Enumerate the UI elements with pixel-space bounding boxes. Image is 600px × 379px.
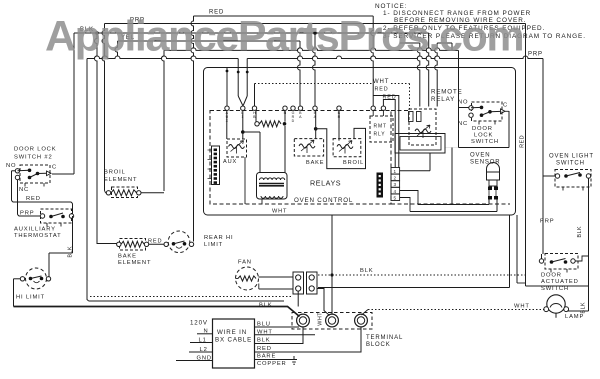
wire join right drops [517, 282, 526, 284]
hi limit blade [31, 276, 42, 279]
svg-text:OVEN CONTROL: OVEN CONTROL [294, 197, 353, 204]
wire NC down [17, 180, 19, 215]
wire WHT dotted right part [391, 83, 410, 85]
svg-text:ELEMENT: ELEMENT [118, 260, 151, 266]
wire fan circuit lower [89, 300, 284, 302]
svg-text:RMT: RMT [374, 124, 387, 130]
svg-text:OVEN LIGHT: OVEN LIGHT [549, 154, 594, 160]
transformer T1 [257, 173, 288, 200]
wire YEL bus [118, 40, 301, 42]
door actuated switch blade [552, 259, 566, 263]
wire BR terminal to broil relay [338, 111, 340, 141]
wire drop to bake element [95, 33, 98, 241]
wire right side drop x=525 [525, 24, 527, 287]
svg-text:3: 3 [394, 182, 397, 187]
junction BLK dotted [330, 273, 333, 276]
svg-text:REAR HI: REAR HI [204, 235, 233, 241]
wire RED bridge outer [373, 96, 399, 168]
svg-text:LIMIT: LIMIT [204, 242, 223, 248]
wire RED drop to board terminal [371, 16, 373, 106]
wire up to C [508, 111, 510, 148]
svg-text:WHT: WHT [318, 312, 324, 326]
wire bare copper [255, 359, 292, 361]
wire PRP drop to oven light switch [542, 59, 544, 177]
terminal DLS2 row2 [15, 175, 19, 179]
relay module solid outline [316, 128, 366, 168]
svg-text:ELEMENT: ELEMENT [104, 177, 137, 183]
junction bake relay feed [314, 127, 318, 131]
switch door lock dashed box [472, 102, 503, 121]
junction BLK/bake [95, 31, 99, 35]
wire drop to door lock switch NO and box edge [458, 50, 460, 147]
svg-text:WHT: WHT [272, 209, 287, 215]
wire aux relay to board edge [244, 157, 246, 204]
relay remote dashed box [409, 109, 436, 145]
wire plug2 to terminal block [317, 289, 330, 316]
svg-text:2: 2 [394, 176, 397, 181]
svg-text:BARE: BARE [257, 354, 276, 360]
wire segment upper right a [400, 42, 420, 44]
wire under door lock switch [459, 147, 510, 149]
ground symbol [291, 356, 297, 364]
terminal bake right [144, 242, 148, 246]
wire to NO terminal [459, 107, 469, 109]
svg-text:NO: NO [458, 100, 468, 106]
wire BLK dotted [318, 274, 526, 276]
wire AUX terminal to aux relay [226, 111, 228, 140]
wire fan bottom stub [258, 284, 260, 290]
wire plug1 to BLK bus [297, 291, 299, 307]
motor fan dashed circle [236, 267, 259, 290]
wire fan circuit dotted [90, 296, 292, 298]
wire transformer to edge [261, 199, 263, 205]
wire NO down [11, 171, 13, 201]
wire N stub [197, 333, 213, 335]
rear hi limit blade [174, 241, 185, 244]
svg-text:HI LIMIT: HI LIMIT [16, 295, 45, 301]
wire drop from box top to AUX terminal [226, 68, 228, 107]
svg-text:BLK: BLK [360, 268, 374, 274]
svg-text:C: C [52, 165, 57, 171]
lamp oven light [547, 295, 565, 313]
resistor broil element [111, 190, 137, 196]
wire fan to connector top [259, 276, 294, 278]
resistor broil element dashed box [112, 187, 138, 198]
connector terminal strip [212, 146, 220, 185]
svg-text:SWITCH: SWITCH [541, 286, 569, 292]
connector strip ticks [208, 149, 212, 151]
wire V join b [243, 96, 247, 106]
wire drop to terminal GRD [298, 41, 301, 106]
terminal rear hi limit left [164, 242, 168, 246]
terminal block lug 2 [326, 314, 339, 327]
svg-text:ACTUATED: ACTUATED [541, 279, 579, 285]
DLS2 blade a [18, 169, 30, 172]
wire to bake element [97, 241, 117, 244]
svg-text:TERMINAL: TERMINAL [366, 335, 403, 341]
svg-text:AUXILLIARY: AUXILLIARY [14, 227, 56, 233]
wire GND stub [176, 360, 213, 362]
terminal aux left [40, 214, 44, 218]
wire left to hi limit [49, 252, 73, 254]
wire PRP drop to broil element [102, 24, 105, 191]
svg-text:PRP: PRP [540, 219, 554, 225]
terminal row on control board [225, 106, 229, 110]
wire L1 stub [190, 342, 213, 344]
wire C to drop [505, 110, 509, 112]
connector fan plug 1 [293, 272, 304, 294]
wire x87 end [86, 298, 88, 301]
wire PRP to oven light switch [543, 175, 556, 177]
wire to BLK vertical [526, 285, 589, 287]
wire WHT power [255, 334, 316, 336]
svg-text:BROIL: BROIL [343, 160, 364, 166]
terminal door actuated left [539, 259, 543, 263]
wire lug3 to RED [255, 327, 362, 352]
svg-text:LOCK: LOCK [474, 133, 493, 139]
pin ticks door actuated switch [551, 269, 567, 273]
wire WHT dotted to lamp [368, 309, 546, 311]
terminal lamp left [544, 307, 549, 312]
terminal rear hi limit right [189, 242, 193, 246]
wire PRP to door actuated switch [542, 176, 544, 254]
wire down to BLK bus [13, 279, 15, 307]
resistor bake element dashed box [120, 239, 146, 251]
svg-text:DOOR: DOOR [472, 126, 493, 132]
wire RED bridge inner [383, 100, 395, 168]
svg-text:BROIL: BROIL [104, 170, 126, 176]
terminal aux right [69, 214, 73, 218]
wire control box to terminal block [331, 215, 333, 314]
switch hi limit dashed circle [26, 268, 47, 289]
relay BROIL dashed box [333, 139, 361, 157]
pin ticks auxiliary thermostat [47, 223, 61, 227]
pin ticks door lock switch 2 [25, 183, 44, 187]
switch auxiliary thermostat dashed box [41, 209, 72, 223]
svg-text:PRP: PRP [528, 52, 543, 58]
wire sensor 1 drop [488, 200, 490, 205]
pin ticks oven light switch [563, 187, 583, 191]
terminal bake left [117, 242, 121, 246]
relay BAKE dashed box [294, 139, 323, 156]
wire spacer hidden [445, 147, 459, 149]
transformer secondary winding [261, 196, 283, 198]
wire down to transformer [259, 132, 261, 173]
wire drop left to fan circuit [86, 59, 88, 300]
svg-text:RELAYS: RELAYS [310, 179, 341, 188]
svg-text:5: 5 [394, 195, 397, 200]
wire RED top bus [194, 15, 374, 17]
box WIRE IN BX CABLE [213, 319, 255, 368]
svg-text:FAN: FAN [238, 260, 252, 266]
wire bake to rear hi limit [149, 243, 166, 245]
terminal hi limit right [46, 277, 50, 281]
svg-text:BAKE: BAKE [118, 254, 137, 260]
svg-text:RED: RED [520, 135, 526, 148]
svg-text:BLK: BLK [259, 303, 273, 309]
wire pin1 to remote relay [400, 170, 430, 172]
relay AUX dashed box [227, 139, 247, 157]
wire WHT dotted drop [409, 84, 411, 110]
pin ticks door lock switch 1 [479, 121, 495, 125]
junction BLK/relay BA [313, 31, 317, 35]
wire pin to sensor 1 [418, 204, 489, 206]
switch door lock 2 dashed box [20, 165, 50, 183]
wire fan to connector bottom [259, 288, 293, 290]
svg-text:AppliancePartsPros.com: AppliancePartsPros.com [45, 12, 523, 60]
wire BLK drop to door lock switch 2 C [73, 33, 75, 174]
svg-text:DOOR LOCK: DOOR LOCK [14, 147, 56, 153]
remote relay inner frame [400, 137, 441, 151]
terminal pin labels [226, 111, 341, 123]
wire terminal to RMT RLY b [382, 111, 384, 117]
wire broil right to bus drop [141, 192, 164, 194]
wire drop to broil element right [162, 50, 165, 191]
wire terminal to RMT RLY [372, 111, 374, 117]
svg-text:NC: NC [458, 121, 468, 127]
wire BA terminal to bake relay [315, 111, 317, 140]
terminal lamp right [564, 307, 569, 312]
wire DLS2 C to BLK drop [52, 173, 74, 175]
wire BLK lamp feed [588, 178, 590, 311]
wire PRP to aux left [18, 215, 41, 217]
wire drop to terminal BA [313, 33, 316, 106]
terminal door actuated right [571, 259, 575, 263]
wire drop remote relay a [417, 43, 420, 107]
svg-text:SENSOR: SENSOR [470, 160, 500, 166]
terminal oven light right [586, 174, 590, 178]
wire box edge drop [516, 215, 518, 283]
svg-text:BLOCK: BLOCK [366, 342, 391, 348]
svg-text:LAMP: LAMP [565, 314, 584, 320]
svg-text:C: C [503, 103, 508, 109]
wire BLK bottom bus [14, 307, 300, 317]
remote relay contact a [409, 112, 414, 122]
dashed edge extension [391, 110, 409, 112]
wire NO stub [12, 170, 16, 172]
resistor bake element [121, 241, 144, 247]
wire door actuated to BLK [575, 256, 588, 261]
wire RED to aux node [12, 201, 73, 204]
switch blade b [482, 111, 501, 115]
svg-text:BLK: BLK [257, 338, 271, 344]
terminal block lug 1 [297, 314, 310, 327]
wire YEL drop [115, 41, 118, 56]
wire drop to L1 terminal b [246, 59, 248, 97]
relay RMT RLY dashed box [370, 116, 393, 142]
wire segment upper right b [437, 42, 452, 44]
wire down to hi limit right [48, 253, 50, 277]
oven control outer box [204, 68, 516, 216]
wire bus WHT left segment [87, 56, 238, 59]
wire into door actuated switch [541, 254, 543, 259]
svg-text:DOOR: DOOR [541, 273, 562, 279]
svg-text:RED: RED [375, 87, 389, 93]
svg-text:BAKE: BAKE [306, 160, 324, 166]
svg-text:1: 1 [394, 169, 397, 174]
dashed bottom extension [391, 203, 510, 205]
svg-text:SWITCH: SWITCH [471, 139, 499, 145]
svg-text:RED: RED [26, 196, 41, 202]
svg-text:BX CABLE: BX CABLE [215, 337, 252, 344]
svg-text:NOTICE:: NOTICE: [375, 3, 407, 10]
wire bus to PRP right [247, 56, 543, 59]
switch blade a [471, 106, 482, 108]
svg-text:RLY: RLY [374, 132, 386, 138]
wire BLK to lamp [567, 310, 589, 312]
svg-text:RED: RED [257, 346, 272, 352]
wire lug1 to BLK [288, 327, 303, 344]
terminal broil right [137, 191, 141, 195]
terminal DLS2 NO [15, 169, 19, 173]
oven sensor bulb [487, 163, 500, 172]
wire aux right down [72, 216, 74, 253]
wire N to resistor [284, 111, 286, 122]
svg-text:SWITCH: SWITCH [556, 161, 585, 167]
wire lug3 diagonal [362, 310, 369, 316]
oven control inner dashed box [210, 111, 391, 205]
wire left drop to fan circuit [87, 59, 89, 302]
wire drop to L1 terminal a [237, 59, 239, 97]
svg-text:WHT: WHT [373, 79, 389, 85]
svg-text:D: D [292, 119, 295, 123]
wire drop WHT to HB terminal [254, 84, 256, 107]
wire to fan connector [318, 287, 510, 289]
fan winding [238, 276, 256, 281]
wire WHT dotted [255, 83, 372, 85]
wire N dot to transformer right [284, 126, 286, 173]
terminal NO 2 [469, 113, 473, 117]
svg-text:AUX: AUX [223, 159, 237, 165]
connector fan plug 2 [307, 272, 318, 294]
wire L2 stub [189, 351, 213, 353]
aux thermostat blade [51, 213, 63, 217]
wire pin to sensor 2 [410, 211, 497, 213]
wire join segment b [451, 43, 453, 50]
wire V join a [238, 96, 243, 106]
wire BLK bus [74, 32, 429, 34]
svg-text:SWITCH #2: SWITCH #2 [14, 155, 53, 161]
wire pin5 jog [400, 198, 410, 212]
wire broil left connect [105, 191, 107, 193]
wire door lock box to sensor wire [451, 148, 453, 205]
wire pin4 jog [400, 191, 418, 205]
wire PRP bus [105, 23, 526, 25]
wire BLK power [255, 343, 289, 345]
connector P1 pins 1-5 [391, 168, 400, 175]
wire hi limit left stub [14, 278, 21, 280]
wire drop remote relay b [435, 43, 438, 107]
svg-text:120V: 120V [190, 320, 208, 327]
svg-text:4: 4 [394, 189, 397, 194]
svg-text:BLK: BLK [577, 226, 583, 238]
connector dark strip [377, 173, 384, 198]
DLS2 blade b [30, 173, 47, 177]
terminal hi limit left [20, 277, 24, 281]
terminal NO [469, 106, 473, 110]
junction resistor right [283, 122, 287, 126]
wire drop to remote relay [426, 33, 429, 107]
wire bus to door lock switch NO [164, 48, 459, 50]
wire L1 to aux relay [242, 111, 244, 140]
wire down to aux right terminal [72, 204, 74, 217]
remote relay contact b [417, 112, 422, 122]
terminal resistor left [255, 122, 259, 126]
svg-text:THERMOSTAT: THERMOSTAT [14, 233, 62, 239]
svg-text:WHT: WHT [514, 304, 530, 310]
svg-text:WIRE IN: WIRE IN [217, 329, 247, 336]
switch oven light dashed box [555, 170, 591, 188]
switch rear hi limit dashed circle [168, 231, 190, 253]
terminal oven light left [555, 174, 559, 178]
wire L1 to transformer left [243, 131, 260, 133]
wire BLU [255, 326, 300, 328]
svg-text:REMOTE: REMOTE [431, 89, 463, 96]
notice text block [375, 3, 586, 40]
switch door actuated dashed box [545, 254, 578, 270]
remote relay outer frame [395, 134, 445, 154]
wire remote relay down [429, 153, 431, 171]
wire control box drop right [509, 215, 511, 288]
svg-text:COPPER: COPPER [257, 361, 287, 367]
svg-text:NO: NO [6, 163, 16, 169]
wire sensor 2 drop [496, 200, 498, 212]
resistor control board [260, 121, 282, 127]
wire RED drop to rear hi limit [191, 16, 194, 242]
svg-text:RELAY: RELAY [431, 96, 455, 103]
transformer primary winding [260, 178, 285, 180]
oven light switch blade [566, 173, 580, 177]
junction L1 node [241, 130, 245, 134]
terminal broil left [106, 191, 110, 195]
svg-text:PRP: PRP [20, 211, 34, 217]
svg-text:OVEN: OVEN [470, 153, 490, 159]
terminal block lug 3 [355, 314, 368, 327]
svg-text:NC: NC [19, 187, 29, 193]
wire HB to resistor [255, 111, 257, 122]
svg-text:BLK: BLK [581, 302, 587, 314]
terminal block dashed box [292, 313, 372, 330]
svg-text:RED: RED [148, 238, 162, 244]
